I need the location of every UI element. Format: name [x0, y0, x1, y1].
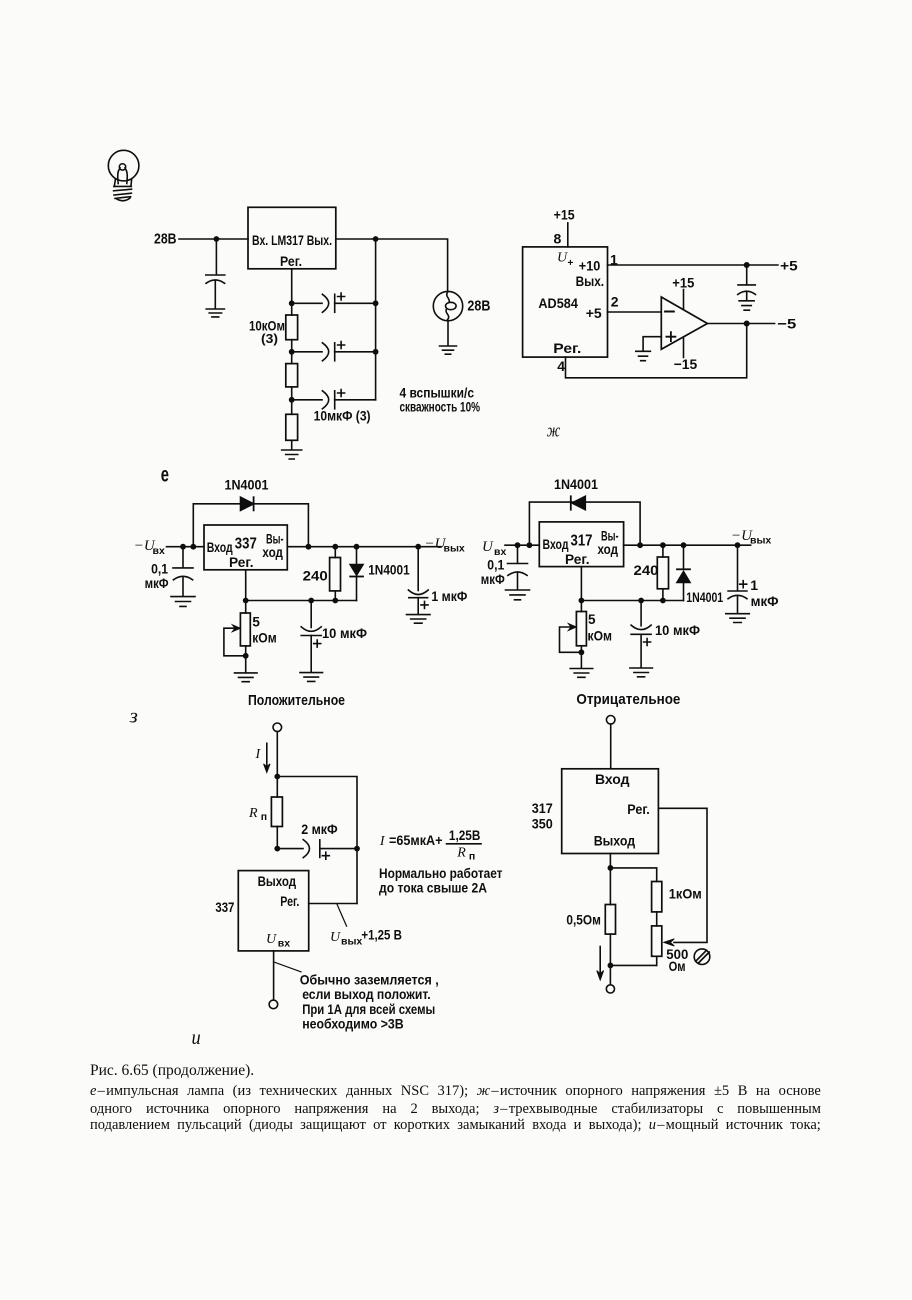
pin label Reg: [553, 340, 581, 356]
plus label C2: [338, 342, 345, 349]
value label 1uF: [431, 588, 467, 604]
svg-text:1N4001: 1N4001: [554, 476, 598, 492]
wire terminal to junction: [276, 732, 278, 777]
svg-text:10мкФ (3): 10мкФ (3): [314, 408, 371, 424]
svg-text:I: I: [379, 834, 386, 849]
value label kOhm: [252, 630, 277, 645]
svg-text:вх: вх: [494, 546, 506, 558]
junction node A2: [289, 349, 295, 355]
formula I equals: [379, 832, 443, 849]
svg-text:Рег.: Рег.: [229, 555, 254, 570]
svg-text:Отрицательное: Отрицательное: [576, 691, 680, 708]
section label i: [192, 1027, 201, 1049]
svg-text:мкФ: мкФ: [751, 593, 779, 609]
wire branch to 1kOhm: [610, 868, 656, 882]
diode D1 1N4001: [241, 497, 254, 510]
resistor R_p: [271, 777, 282, 849]
pin label Reg: [229, 555, 254, 570]
wire pin 1 to +5 output: [608, 264, 778, 266]
svg-text:317: 317: [571, 533, 593, 550]
resistor R3 10kOhm: [286, 400, 298, 450]
pin label Reg: [280, 253, 302, 269]
capacitor C10 2uF: [277, 840, 357, 858]
junction cap bus C1: [373, 300, 379, 306]
pin label Vhod i-right: [595, 772, 630, 787]
section label zh: [547, 421, 561, 442]
junction 10uF top right: [638, 598, 644, 604]
ground lamp: [440, 346, 457, 354]
node Uin label: [482, 539, 506, 558]
regulator U1 LM317 box: [248, 207, 336, 268]
annotation normally works: [379, 865, 503, 881]
caption line 3: [90, 1118, 821, 1133]
node -5 output label: [777, 316, 796, 332]
svg-text:кОм: кОм: [588, 629, 613, 644]
junction 240 top: [332, 544, 338, 550]
plus label C6: [421, 601, 428, 608]
capacitor C2 10uF: [292, 343, 376, 361]
svg-text:+5: +5: [780, 257, 798, 273]
annotation 4 flashes: [400, 385, 475, 401]
node +15 supply label: [554, 207, 575, 223]
wire input: [167, 546, 205, 548]
svg-text:и: и: [192, 1027, 201, 1049]
wire top to right branch: [277, 777, 357, 904]
regulator U5 317 box: [539, 522, 623, 567]
note line 3: [302, 1001, 435, 1017]
plus label C3: [338, 390, 345, 397]
svg-text:2 мкФ: 2 мкФ: [301, 821, 338, 837]
wire output line: [287, 546, 441, 548]
node -Uout label: [425, 536, 465, 555]
pin label Vhod right: [543, 537, 569, 552]
ground pot z-right: [570, 669, 593, 678]
capacitor C1 10uF: [292, 294, 376, 312]
part label AD584: [538, 295, 578, 311]
capacitor C3 10uF: [292, 391, 376, 409]
svg-text:Выход: Выход: [258, 874, 297, 889]
junction node A3: [289, 397, 295, 403]
svg-text:28В: 28В: [154, 232, 177, 248]
pin label +10: [579, 258, 601, 274]
wire bottom rail z-right: [581, 600, 683, 602]
note line 2: [302, 986, 431, 1002]
wire box bottom output: [609, 854, 611, 868]
svg-text:+1,25 В: +1,25 В: [361, 927, 402, 943]
svg-text:Вход: Вход: [207, 540, 233, 555]
svg-text:ход: ход: [262, 545, 283, 560]
svg-text:Положительное: Положительное: [248, 692, 345, 709]
value label 240 right: [634, 562, 659, 578]
svg-text:вх: вх: [278, 938, 290, 950]
plus label C8: [644, 639, 651, 646]
pin number 8: [554, 231, 562, 247]
svg-text:+: +: [568, 258, 574, 269]
node -Uout label right: [731, 528, 771, 547]
junction 240 bottom: [332, 598, 338, 604]
title Polozhitelnoe: [248, 692, 345, 709]
pin label Reg i-right: [627, 802, 650, 817]
svg-text:вых: вых: [341, 936, 362, 948]
pot wiper arrow right: [664, 939, 674, 946]
wire op-amp output -5: [707, 323, 774, 325]
svg-text:10 мкФ: 10 мкФ: [655, 622, 700, 638]
wire input right: [505, 544, 539, 546]
caption title: [90, 1063, 821, 1079]
resistor R4 240: [330, 547, 341, 601]
svg-text:Рег.: Рег.: [280, 253, 302, 269]
value label Ohm: [669, 958, 686, 974]
junction loop node: [190, 544, 196, 550]
pin label Vyhod i-right: [594, 833, 636, 848]
capacitor C5 10uF: [301, 601, 321, 673]
junction input node: [214, 236, 220, 242]
svg-text:I: I: [255, 747, 262, 762]
svg-text:Рег.: Рег.: [565, 552, 590, 567]
svg-text:1N4001: 1N4001: [368, 562, 410, 577]
op-amp -15 supply label: [674, 356, 698, 372]
svg-text:1: 1: [750, 577, 758, 593]
value label 500: [666, 946, 688, 962]
pin label Vyhod: [258, 874, 297, 889]
potentiometer R9 500 Ohm: [610, 926, 661, 966]
value label 5 right: [588, 612, 596, 627]
reference U2 AD584 box: [523, 247, 608, 357]
svg-text:ж: ж: [547, 421, 561, 442]
svg-text:2: 2: [611, 294, 619, 310]
formula fraction bar: [447, 843, 482, 845]
value label 2uF: [301, 821, 338, 837]
value label lamp 28V: [467, 299, 490, 315]
value label 10kOhm: [249, 318, 285, 334]
regulator U4 337 box: [204, 525, 287, 570]
junction diode top right: [681, 542, 687, 548]
svg-text:необходимо >3В: необходимо >3В: [302, 1015, 404, 1031]
ground input cap z-left: [171, 597, 195, 607]
svg-text:вх: вх: [153, 545, 165, 557]
wire cap bus vertical: [375, 239, 377, 400]
junction output node: [373, 236, 379, 242]
junction top node: [274, 774, 280, 780]
pin label hod right: [598, 542, 619, 557]
svg-text:350: 350: [532, 816, 553, 832]
light bulb icon: [108, 150, 139, 200]
ground input cap z-right: [506, 590, 530, 600]
svg-text:0,1: 0,1: [151, 562, 168, 577]
svg-text:+10: +10: [579, 258, 601, 274]
formula denominator R_p: [456, 846, 475, 863]
svg-text:AD584: AD584: [538, 295, 578, 311]
wire pot to ground right: [580, 652, 582, 668]
junction pot bottom: [243, 653, 249, 659]
junction 10uF top: [308, 598, 314, 604]
ground +5 bypass cap: [739, 301, 754, 310]
value label 10uF: [322, 625, 367, 641]
value label diode D2: [368, 562, 410, 577]
svg-text:0,1: 0,1: [487, 557, 504, 572]
junction node A1: [289, 300, 295, 306]
svg-text:337: 337: [215, 899, 234, 915]
capacitor C9 1uF: [728, 545, 747, 613]
junction -5 node: [744, 321, 750, 327]
value label R_p: [248, 806, 267, 823]
ground C8: [630, 668, 653, 677]
formula numerator 1,25V: [449, 827, 481, 843]
junction input cap node: [180, 544, 186, 550]
value label mkF: [145, 576, 169, 591]
junction cap bus C2: [373, 349, 379, 355]
junction loop node right: [527, 542, 533, 548]
value label 0,1 right: [487, 557, 504, 572]
svg-text:ход: ход: [598, 542, 619, 557]
value label 0,5 Ohm: [566, 911, 601, 927]
svg-text:вых: вых: [444, 543, 465, 555]
pin label Uvx: [266, 932, 290, 950]
pin label hod: [262, 545, 283, 560]
svg-text:Рег.: Рег.: [553, 340, 581, 356]
svg-text:337: 337: [235, 536, 257, 553]
pin label Reg right: [565, 552, 590, 567]
svg-text:п: п: [261, 811, 267, 823]
ground pot z-left: [235, 673, 258, 682]
junction loop right: [306, 544, 312, 550]
wire input 28V to regulator: [179, 238, 248, 240]
screwdriver adjust symbol: [694, 949, 710, 965]
wire protection loop top left: [193, 504, 308, 547]
value label 0,1: [151, 562, 168, 577]
svg-text:Рег.: Рег.: [627, 802, 650, 817]
pin label Vy-: [266, 532, 284, 547]
plus label C5: [314, 640, 321, 647]
pin label Reg i-left: [280, 894, 299, 909]
note line 1: [300, 971, 439, 987]
value label 1: [750, 577, 758, 593]
svg-text:если выход положит.: если выход положит.: [302, 986, 431, 1002]
pin number 4: [557, 358, 565, 374]
wire op-amp +15: [683, 290, 685, 309]
wire lamp to ground: [447, 321, 449, 346]
regulator U7 317-350 box: [562, 769, 659, 854]
svg-text:U: U: [557, 251, 568, 266]
title Otricatelnoe: [576, 691, 680, 708]
junction cap left node: [274, 846, 280, 852]
svg-text:мкФ: мкФ: [145, 576, 169, 591]
wire terminal to box: [610, 724, 612, 769]
svg-text:U: U: [330, 930, 341, 945]
svg-text:5: 5: [588, 612, 596, 627]
ground C5: [300, 673, 323, 682]
wire pin 8 supply: [567, 223, 569, 247]
op-amp U3: [661, 297, 707, 349]
pin number 1: [610, 252, 618, 268]
leader line ground note: [275, 962, 301, 971]
section label e: [161, 464, 169, 487]
node -Uin label: [134, 538, 165, 557]
part label 337: [235, 536, 257, 553]
note line 4: [302, 1015, 404, 1031]
svg-text:кОм: кОм: [252, 630, 277, 645]
op-amp +15 supply label: [672, 275, 694, 291]
wire pot to ground: [245, 656, 247, 673]
ground input cap: [206, 309, 224, 317]
capacitor +5 bypass: [738, 265, 756, 300]
resistor R1 10kOhm: [286, 303, 298, 352]
leader line Uout: [337, 904, 347, 927]
part label 317: [571, 533, 593, 550]
svg-text:Вход: Вход: [543, 537, 569, 552]
svg-text:240: 240: [634, 562, 659, 578]
terminal bottom: [269, 1000, 278, 1009]
plus label C1: [338, 293, 345, 300]
junction output cap: [415, 544, 421, 550]
junction input cap node right: [515, 542, 521, 548]
pin label Vhod: [207, 540, 233, 555]
junction 240 top right: [660, 542, 666, 548]
svg-text:R: R: [248, 806, 258, 821]
svg-text:мкФ: мкФ: [481, 572, 505, 587]
junction output cap right: [735, 542, 741, 548]
annotation up to 2A: [379, 879, 487, 895]
wire pin 2 to op-amp: [608, 311, 662, 313]
wire bottom rail z-left: [246, 600, 357, 602]
junction +5 node: [744, 262, 750, 268]
wire feedback to pin 4: [566, 324, 747, 378]
node label Uout +1,25V: [330, 927, 402, 948]
wire Reg pin down z-left: [245, 570, 247, 601]
part label 337 i-left: [215, 899, 234, 915]
resistor R6 240: [657, 545, 668, 600]
current arrow: [264, 743, 270, 772]
current label I: [255, 747, 262, 762]
wire output to lamp: [336, 239, 448, 291]
value label diode D1 1N4001: [225, 477, 269, 493]
value label 10uF right: [655, 622, 700, 638]
capacitor C6 1uF: [408, 547, 428, 614]
svg-text:1кОм: 1кОм: [669, 885, 702, 901]
svg-text:4: 4: [557, 358, 565, 374]
plus label C9: [740, 581, 747, 588]
lamp 28V: [433, 291, 462, 320]
svg-text:+15: +15: [554, 207, 575, 223]
wire Reg pin down z-right: [580, 567, 582, 601]
resistor R2 10kOhm: [286, 352, 298, 400]
svg-text:−5: −5: [777, 316, 796, 332]
svg-text:+15: +15: [672, 275, 694, 291]
ground plus input: [636, 351, 651, 360]
svg-text:1 мкФ: 1 мкФ: [431, 588, 467, 604]
pin label Vx LM317 Vyx: [252, 232, 332, 248]
svg-text:8: 8: [554, 231, 562, 247]
plus label C10: [322, 852, 329, 859]
resistor R8 1kOhm: [652, 882, 662, 926]
terminal bottom right: [606, 985, 614, 993]
capacitor input C_in: [206, 239, 225, 308]
junction pot top right: [579, 598, 585, 604]
junction pot top: [243, 598, 249, 604]
junction cap right node: [354, 846, 360, 852]
caption line 2: [90, 1102, 821, 1117]
value label 10uF (3): [314, 408, 371, 424]
regulator U6 337 box: [238, 871, 308, 951]
value label mkF C9: [751, 593, 779, 609]
svg-text:28В: 28В: [467, 299, 490, 315]
svg-text:+5: +5: [586, 305, 602, 321]
ground C9: [726, 614, 750, 623]
caption line 1: [90, 1084, 821, 1099]
ground resistor chain: [282, 450, 302, 459]
pin label +5: [586, 305, 602, 321]
terminal input top: [273, 723, 282, 732]
value label 5: [252, 614, 260, 629]
svg-text:317: 317: [532, 800, 553, 816]
wire output line right: [624, 544, 751, 546]
value label diode D4: [686, 590, 723, 605]
section label z: [129, 706, 138, 728]
capacitor C7 0.1uF: [508, 545, 528, 589]
value label (3): [261, 331, 278, 346]
value label mkF right: [481, 572, 505, 587]
svg-text:U: U: [266, 932, 277, 947]
junction diode top: [354, 544, 360, 550]
svg-text:вых: вых: [750, 535, 771, 547]
wire Reg loop to pot wiper: [658, 808, 707, 942]
terminal input top right: [606, 716, 615, 725]
svg-text:Рег.: Рег.: [280, 894, 299, 909]
diode D2 1N4001: [350, 547, 363, 601]
svg-text:Вход: Вход: [595, 772, 630, 787]
svg-text:Выход: Выход: [594, 833, 636, 848]
pin label Vy- right: [601, 529, 619, 544]
svg-text:1,25В: 1,25В: [449, 827, 481, 843]
value label kOhm right: [588, 629, 613, 644]
node 28V input label: [154, 232, 177, 248]
wire op-amp -15: [683, 338, 685, 357]
wire junction to terminal: [609, 965, 611, 984]
svg-text:0,5Ом: 0,5Ом: [566, 911, 601, 927]
svg-text:до тока свыше 2А: до тока свыше 2А: [379, 879, 487, 895]
value label 240: [303, 567, 328, 583]
svg-text:скважность 10%: скважность 10%: [400, 398, 481, 414]
svg-text:240: 240: [303, 567, 328, 583]
wire Reg to right branch: [309, 903, 357, 905]
junction 240 bottom right: [660, 598, 666, 604]
svg-text:е: е: [161, 464, 169, 487]
current arrow down i-right: [597, 947, 604, 981]
value label 1kOhm: [669, 885, 702, 901]
wire Reg pin down: [291, 269, 293, 304]
plus input mark: [666, 332, 675, 341]
pin number 2: [611, 294, 619, 310]
wire protection loop top right: [529, 502, 640, 545]
svg-text:Вых.: Вых.: [576, 273, 605, 289]
ground C6: [407, 615, 431, 624]
svg-text:Ом: Ом: [669, 958, 686, 974]
junction pot bottom right: [579, 649, 585, 655]
svg-text:(3): (3): [261, 331, 278, 346]
potentiometer R5 5kOhm: [224, 601, 250, 656]
pin label Out: [576, 273, 605, 289]
svg-text:=65мкА+: =65мкА+: [389, 832, 443, 848]
svg-text:з: з: [129, 706, 138, 728]
wire plus input to ground: [643, 337, 661, 351]
svg-text:−15: −15: [674, 356, 698, 372]
resistor R10 0.5 Ohm: [605, 868, 615, 966]
capacitor C8 10uF: [631, 601, 651, 668]
diode D3 1N4001: [571, 496, 586, 509]
svg-text:п: п: [469, 851, 475, 863]
svg-text:R: R: [456, 846, 466, 861]
minus input mark: [665, 311, 674, 313]
